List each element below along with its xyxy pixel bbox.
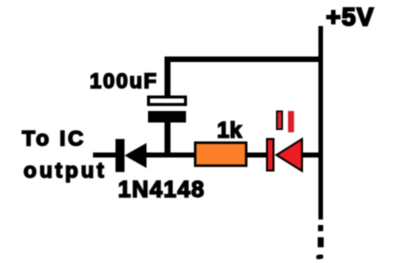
wire left to diode: [93, 153, 123, 158]
wire diode to resistor: [146, 153, 195, 158]
LED D2 triangle: [277, 139, 303, 171]
diode D1 1N4148 cathode bar: [116, 139, 125, 172]
wire +5V rail vertical: [318, 26, 323, 220]
LED D2 cathode bar: [267, 139, 274, 171]
LED D2 light mark 2: [288, 111, 294, 132]
wire rail dashed continuation dot 3: [316, 255, 323, 260]
svg-text:+5V: +5V: [326, 3, 374, 31]
capacitor C1 bottom plate: [148, 111, 186, 123]
wire resistor to LED: [247, 153, 267, 158]
capacitor C1 top plate: [149, 97, 186, 105]
resistor R1 body: [195, 143, 246, 166]
svg-text:1k: 1k: [217, 118, 243, 143]
svg-text:To IC: To IC: [22, 126, 86, 150]
wire capacitor top lead: [165, 57, 171, 97]
svg-text:output: output: [24, 159, 107, 183]
LED D2 light mark 1: [277, 111, 282, 129]
svg-text:100uF: 100uF: [90, 70, 158, 93]
diode D1 1N4148 triangle: [125, 143, 147, 168]
svg-text:1N4148: 1N4148: [118, 176, 205, 202]
wire rail dashed continuation dot 1: [318, 225, 323, 231]
wire rail dashed continuation dot 2: [318, 237, 324, 247]
wire capacitor bottom lead: [165, 123, 171, 158]
wire LED to rail: [301, 153, 320, 158]
wire top horizontal to capacitor: [165, 57, 321, 63]
